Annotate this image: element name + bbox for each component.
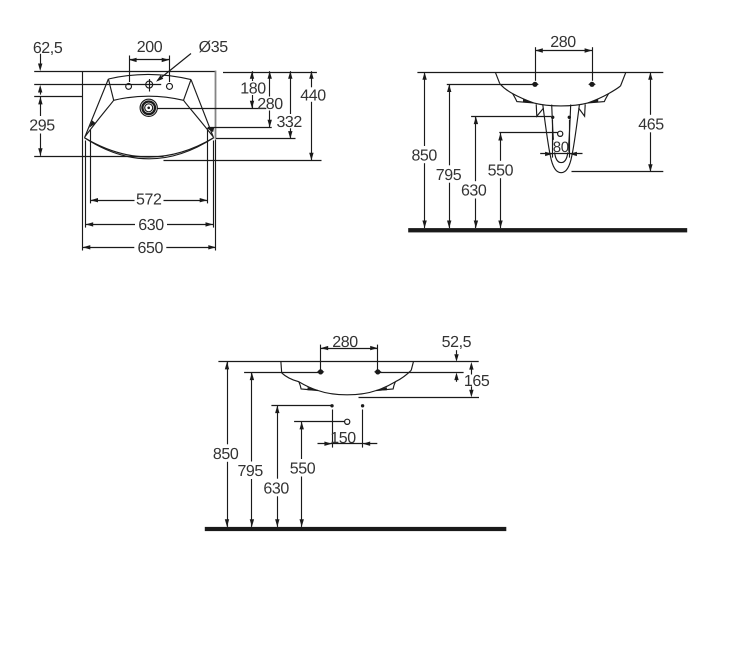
view3 right fixing bolt xyxy=(374,370,382,375)
view2 dim 465 arrows xyxy=(648,72,652,80)
view1 panel left edge / 650 left extension line xyxy=(82,71,84,250)
svg-text:280: 280 xyxy=(550,34,576,51)
view1 arrow on inner bowl left edge xyxy=(89,120,95,127)
view2 left cover fixing dot xyxy=(551,116,554,119)
view2 dim 795 reference line xyxy=(447,84,535,86)
view2 dim 465 bottom reference line xyxy=(572,171,664,173)
svg-text:52,5: 52,5 xyxy=(442,334,472,351)
view2 floor line xyxy=(408,228,687,232)
view3 dim 165 bottom shaft+arrow xyxy=(471,386,473,390)
view3 dim 795 shaft xyxy=(251,373,253,462)
view3 dim 150 arrows xyxy=(324,442,332,446)
svg-text:200: 200 xyxy=(137,39,163,56)
view1 drain inner circle xyxy=(145,104,153,112)
view1 dim 200 line+arrows xyxy=(129,59,169,61)
view1 tap deck right side line xyxy=(184,80,192,101)
view3 dim 52,5 lower arrow+shaft xyxy=(454,373,458,381)
view1 630 right extension line xyxy=(213,141,215,228)
svg-text:550: 550 xyxy=(290,461,316,478)
view1 dim 280 ref arrowhead xyxy=(206,128,214,132)
view2 right ear dark tip xyxy=(587,99,599,103)
svg-text:62,5: 62,5 xyxy=(33,40,63,57)
view1 tap deck left side line xyxy=(108,79,113,100)
view2 dim 80 line xyxy=(540,153,582,155)
view1 572 right extension line xyxy=(207,130,209,203)
view1 dim 572 arrows xyxy=(90,198,98,202)
view2 dim 465 shaft xyxy=(650,72,652,115)
view3 bolt-level line right xyxy=(378,372,464,374)
view3 dim 150 extension lines xyxy=(332,410,334,448)
view3 right cover-hole dot xyxy=(361,404,364,407)
view3 left cover-hole dot xyxy=(330,404,333,407)
view1 dim 62,5 lower arrow+shaft xyxy=(38,85,42,93)
view3 overflow circle xyxy=(345,419,350,424)
view2 dim 280 extension lines xyxy=(535,47,537,81)
view3 top edge + references line xyxy=(218,361,478,363)
view1 dim 650 arrows xyxy=(83,245,91,249)
view1 centre tap hole vertical centreline xyxy=(149,79,151,92)
view2 basin right edge xyxy=(621,72,626,86)
view3 dim 550 shaft xyxy=(301,422,303,459)
view1 right dims top reference line xyxy=(223,72,317,74)
view2 dim 550 shaft xyxy=(500,133,502,161)
view1 inner bowl left edge xyxy=(85,100,114,136)
view2 overflow circle xyxy=(558,131,563,136)
view2 dim 80 arrows xyxy=(545,152,553,156)
view2 top edge + 850/465 reference line xyxy=(417,72,663,74)
view2 dim 795 shaft xyxy=(449,84,451,165)
view2 basin bowl bottom curve xyxy=(500,84,621,106)
view1 inner bowl right edge xyxy=(184,100,214,136)
view2 right cover fixing dot xyxy=(568,116,571,119)
svg-text:150: 150 xyxy=(330,430,356,447)
view1 dim 630 arrows xyxy=(86,222,94,226)
view2 siphon cover inner outline xyxy=(552,105,571,163)
view2 dim 795 arrows xyxy=(447,84,451,92)
view3 dim 52,5 upper shaft+arrow xyxy=(456,350,458,354)
svg-text:795: 795 xyxy=(436,167,462,184)
view3 dim 630 shaft xyxy=(277,406,279,479)
view1 dim 440 shaft xyxy=(311,71,313,87)
svg-text:280: 280 xyxy=(257,96,283,113)
svg-text:850: 850 xyxy=(411,147,437,164)
view3 dim 150 line xyxy=(318,443,378,445)
svg-text:180: 180 xyxy=(240,81,266,98)
view1 dim 180 bottom ref / drain leader xyxy=(157,108,266,110)
view3 dim 630 arrows xyxy=(275,406,279,414)
view2 basin left edge xyxy=(495,72,500,84)
view1 295 bottom reference / panel bottom line xyxy=(34,156,163,158)
svg-text:795: 795 xyxy=(237,463,263,480)
view3 basin right edge xyxy=(411,362,413,371)
view3 basin left edge xyxy=(280,362,283,373)
view1 right tap hole xyxy=(167,83,173,89)
view1 tap deck front arc xyxy=(114,96,184,100)
view2 dim 850 shaft xyxy=(424,72,426,146)
view3 dim 550 arrows xyxy=(300,422,304,430)
view1 dim 295 arrows xyxy=(38,97,42,105)
view2 dim 550 arrows xyxy=(498,133,502,141)
view1 O35 leader xyxy=(158,54,192,81)
view1 650 right extension line xyxy=(215,140,217,251)
view1 572 left extension line xyxy=(90,130,92,203)
svg-text:630: 630 xyxy=(138,217,164,234)
view1 dim 332 bottom ref line xyxy=(216,138,296,140)
view1 dim 280 shaft xyxy=(269,71,271,96)
view2 left fixing bolt xyxy=(531,82,539,87)
view1 basin right rim slant xyxy=(191,80,214,138)
view1 drain ring xyxy=(142,102,155,115)
svg-text:165: 165 xyxy=(464,373,490,390)
view1 295 top reference line xyxy=(34,96,82,98)
view1 dim 280 bottom ref line xyxy=(208,127,272,129)
view3 bolt-level line left xyxy=(244,372,321,374)
view1 washbasin plan: outer panel top edge + left extension xyxy=(34,71,215,73)
view2 dim 630 shaft xyxy=(475,117,477,182)
view1 dim 200 extension lines xyxy=(129,56,131,83)
view3 dim 165 top arrow+shaft xyxy=(469,362,473,370)
view3 dim 165 bottom reference line xyxy=(359,397,480,399)
view1 dim 295 shaft xyxy=(40,97,42,116)
svg-text:295: 295 xyxy=(29,118,55,135)
svg-text:850: 850 xyxy=(213,446,239,463)
view3 right ear dark tip xyxy=(376,387,387,390)
svg-text:630: 630 xyxy=(263,480,289,497)
view1 630 left extension line xyxy=(85,141,87,228)
view1 basin front inner curve xyxy=(85,138,214,159)
view3 dim 850 arrows xyxy=(225,362,229,370)
view1 drain outer circle xyxy=(140,99,157,116)
view1 panel right edge (gray) xyxy=(215,71,217,139)
view1 tap-hole centreline xyxy=(34,84,161,86)
view1 dim 630 line xyxy=(86,224,135,226)
view2 left ear outline xyxy=(513,94,534,103)
view3 dim 550 reference line xyxy=(294,421,345,423)
view2 dim 80 label xyxy=(553,140,568,153)
view2 dim 850 arrows xyxy=(422,72,426,80)
view2 left ear dark tip xyxy=(523,99,535,103)
view1 dim 180 arrows xyxy=(250,71,254,79)
view1 centre tap hole xyxy=(146,81,153,88)
view3 left ear outline xyxy=(299,382,318,391)
view2 dim 630 arrows xyxy=(474,117,478,125)
view1 dim 650 line xyxy=(83,247,135,249)
view3 dim 795 arrows xyxy=(250,373,254,381)
svg-text:332: 332 xyxy=(276,114,302,131)
view2 siphon cover outer outline xyxy=(543,105,580,173)
svg-text:650: 650 xyxy=(138,240,164,257)
svg-text:440: 440 xyxy=(300,87,326,104)
view1 basin back arc xyxy=(108,74,191,79)
view3 right ear outline xyxy=(376,382,395,391)
view3 dim 280 extension lines xyxy=(320,345,322,372)
view1 dim 62,5 upper shaft+arrow xyxy=(40,54,42,64)
svg-text:630: 630 xyxy=(461,183,487,200)
view2 dim 80 extension lines xyxy=(552,120,554,158)
view2 dim 550 reference line xyxy=(499,132,557,134)
view1 dim 440 arrows xyxy=(309,71,313,79)
view1 left tap hole xyxy=(126,84,132,90)
view1 dim 280 arrows xyxy=(268,71,272,79)
svg-text:550: 550 xyxy=(488,162,514,179)
view2 cover left tab xyxy=(536,104,543,116)
view3 left fixing bolt xyxy=(317,370,325,375)
view3 dim 850 shaft xyxy=(227,362,229,445)
view3 dim 280 line+arrows xyxy=(321,348,378,350)
view1 dim 332 shaft xyxy=(290,71,292,114)
view3 dim 630 reference line xyxy=(271,405,331,407)
view2 right ear outline xyxy=(588,94,609,103)
view1 440 bottom reference line xyxy=(164,160,322,162)
view2 dim 630 reference line xyxy=(471,116,551,118)
view1 basin front outer curve xyxy=(85,138,214,157)
view2 dim 280 line+arrows xyxy=(535,50,592,52)
view1 dim 332 arrows xyxy=(288,71,292,79)
view1 dim 572 line xyxy=(90,200,134,202)
view2 right fixing bolt xyxy=(588,82,596,87)
view1 basin left rim slant xyxy=(85,79,109,138)
view3 floor line xyxy=(205,527,507,531)
view2 cover right tab xyxy=(579,104,586,116)
svg-text:465: 465 xyxy=(638,116,664,133)
view3 left ear dark tip xyxy=(308,387,319,390)
svg-text:572: 572 xyxy=(136,192,162,209)
view1 dim 180 shaft xyxy=(252,71,254,81)
view3 basin bowl bottom curve xyxy=(282,370,412,395)
view1 drain centre dot xyxy=(147,107,150,110)
svg-text:Ø35: Ø35 xyxy=(199,39,229,56)
